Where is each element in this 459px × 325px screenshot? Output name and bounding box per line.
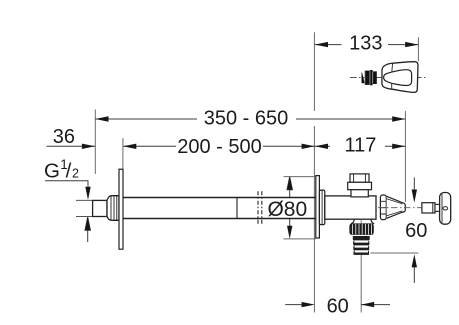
- bonnet neck: [351, 190, 368, 197]
- hose barb connector: [353, 235, 370, 255]
- svg-text:60: 60: [327, 295, 349, 317]
- tube joint line: [236, 198, 238, 219]
- valve body: [325, 196, 376, 219]
- dimension Ø80 up arrow: [287, 177, 292, 198]
- dimension 36 arrow: [82, 144, 95, 149]
- dimension 36 line: [47, 145, 96, 147]
- spindle cone: [387, 196, 406, 218]
- knurled hose nut: [349, 223, 373, 235]
- dimension right 60 up arrow: [413, 264, 415, 283]
- tube break lines (dash-dot): [258, 191, 262, 225]
- dimension 117 left arrow: [315, 144, 328, 149]
- handle body (top view icon): [382, 62, 418, 93]
- handle knob (side view): [440, 193, 451, 225]
- handle inner contour: [384, 70, 412, 86]
- right 60 bottom extension line: [370, 252, 418, 254]
- G1/2 leader down arrow: [85, 187, 90, 200]
- wall plate 2: [316, 176, 320, 238]
- knurled ring: [380, 195, 386, 220]
- extension line E2 (flange wall face): [122, 138, 124, 169]
- extension line E4 (cone tip vertical): [404, 111, 406, 202]
- spindle coupling: [435, 204, 440, 211]
- handle adapter (dark): [362, 70, 377, 85]
- outlet centerline stub: [360, 219, 362, 223]
- dimension 133 line: [315, 44, 419, 46]
- svg-text:/: /: [66, 159, 72, 182]
- dimension 133 left arrow: [315, 42, 328, 47]
- bonnet cap top block: [350, 174, 369, 182]
- inlet collar: [107, 196, 119, 221]
- extension line E3 (wall plate, long vertical): [313, 32, 315, 312]
- dimension 200-500 left arrow: [123, 144, 136, 149]
- dimension 133 right arrow: [405, 42, 418, 47]
- svg-text:350 - 650: 350 - 650: [204, 108, 289, 130]
- G1/2 threaded nipple: [93, 200, 107, 216]
- dimension Ø80 down arrow: [289, 219, 291, 229]
- handle slot: [443, 207, 448, 210]
- svg-text:60: 60: [405, 220, 427, 242]
- dimension bottom 60 line: [285, 304, 390, 306]
- svg-text:133: 133: [349, 33, 382, 55]
- handle facet line: [391, 63, 394, 89]
- extension tube (pipe): [123, 198, 316, 219]
- svg-text:200 - 500: 200 - 500: [177, 136, 262, 158]
- wall flange 1: [119, 169, 123, 249]
- svg-text:2: 2: [72, 167, 79, 181]
- dimension right 60 down arrow: [413, 177, 415, 193]
- Ø80 bottom extension line: [284, 238, 316, 240]
- extension line E1 (left, 36/350-650 origin): [94, 110, 96, 175]
- dimension bottom 60 left arrow: [302, 302, 315, 307]
- spindle cylinder: [422, 203, 435, 213]
- mounting collar 2: [319, 190, 324, 225]
- dimension 117 line: [315, 145, 406, 147]
- centerline right (dash-dot): [378, 207, 422, 209]
- svg-text:117: 117: [344, 135, 376, 157]
- dimension bottom 60 right arrow: [361, 302, 374, 307]
- dimension 117 right arrow: [392, 144, 405, 149]
- dimension 350-650 line: [95, 118, 405, 120]
- G1/2 leader line: [45, 181, 88, 189]
- bonnet cap band: [348, 182, 372, 189]
- dimension 350-650 left arrow: [95, 116, 108, 121]
- dimension 200-500 line: [123, 145, 315, 147]
- extension line E6 (hose axis, bottom 60): [360, 255, 362, 313]
- svg-text:36: 36: [53, 126, 75, 148]
- svg-text:Ø80: Ø80: [267, 198, 307, 221]
- top handle centerline (dash-dot): [350, 77, 427, 79]
- nipple bottom extension stub: [76, 216, 93, 218]
- outlet fillet neck: [351, 219, 374, 223]
- nipple top extension stub: [76, 199, 93, 201]
- G1/2 up arrow (below nipple): [85, 217, 90, 242]
- svg-text:G: G: [44, 159, 60, 182]
- dimension 200-500 right arrow: [302, 144, 315, 149]
- extension line E5 (knob right, 133): [417, 37, 419, 61]
- dimension 350-650 right arrow: [392, 116, 405, 121]
- Ø80 top extension line: [284, 176, 316, 178]
